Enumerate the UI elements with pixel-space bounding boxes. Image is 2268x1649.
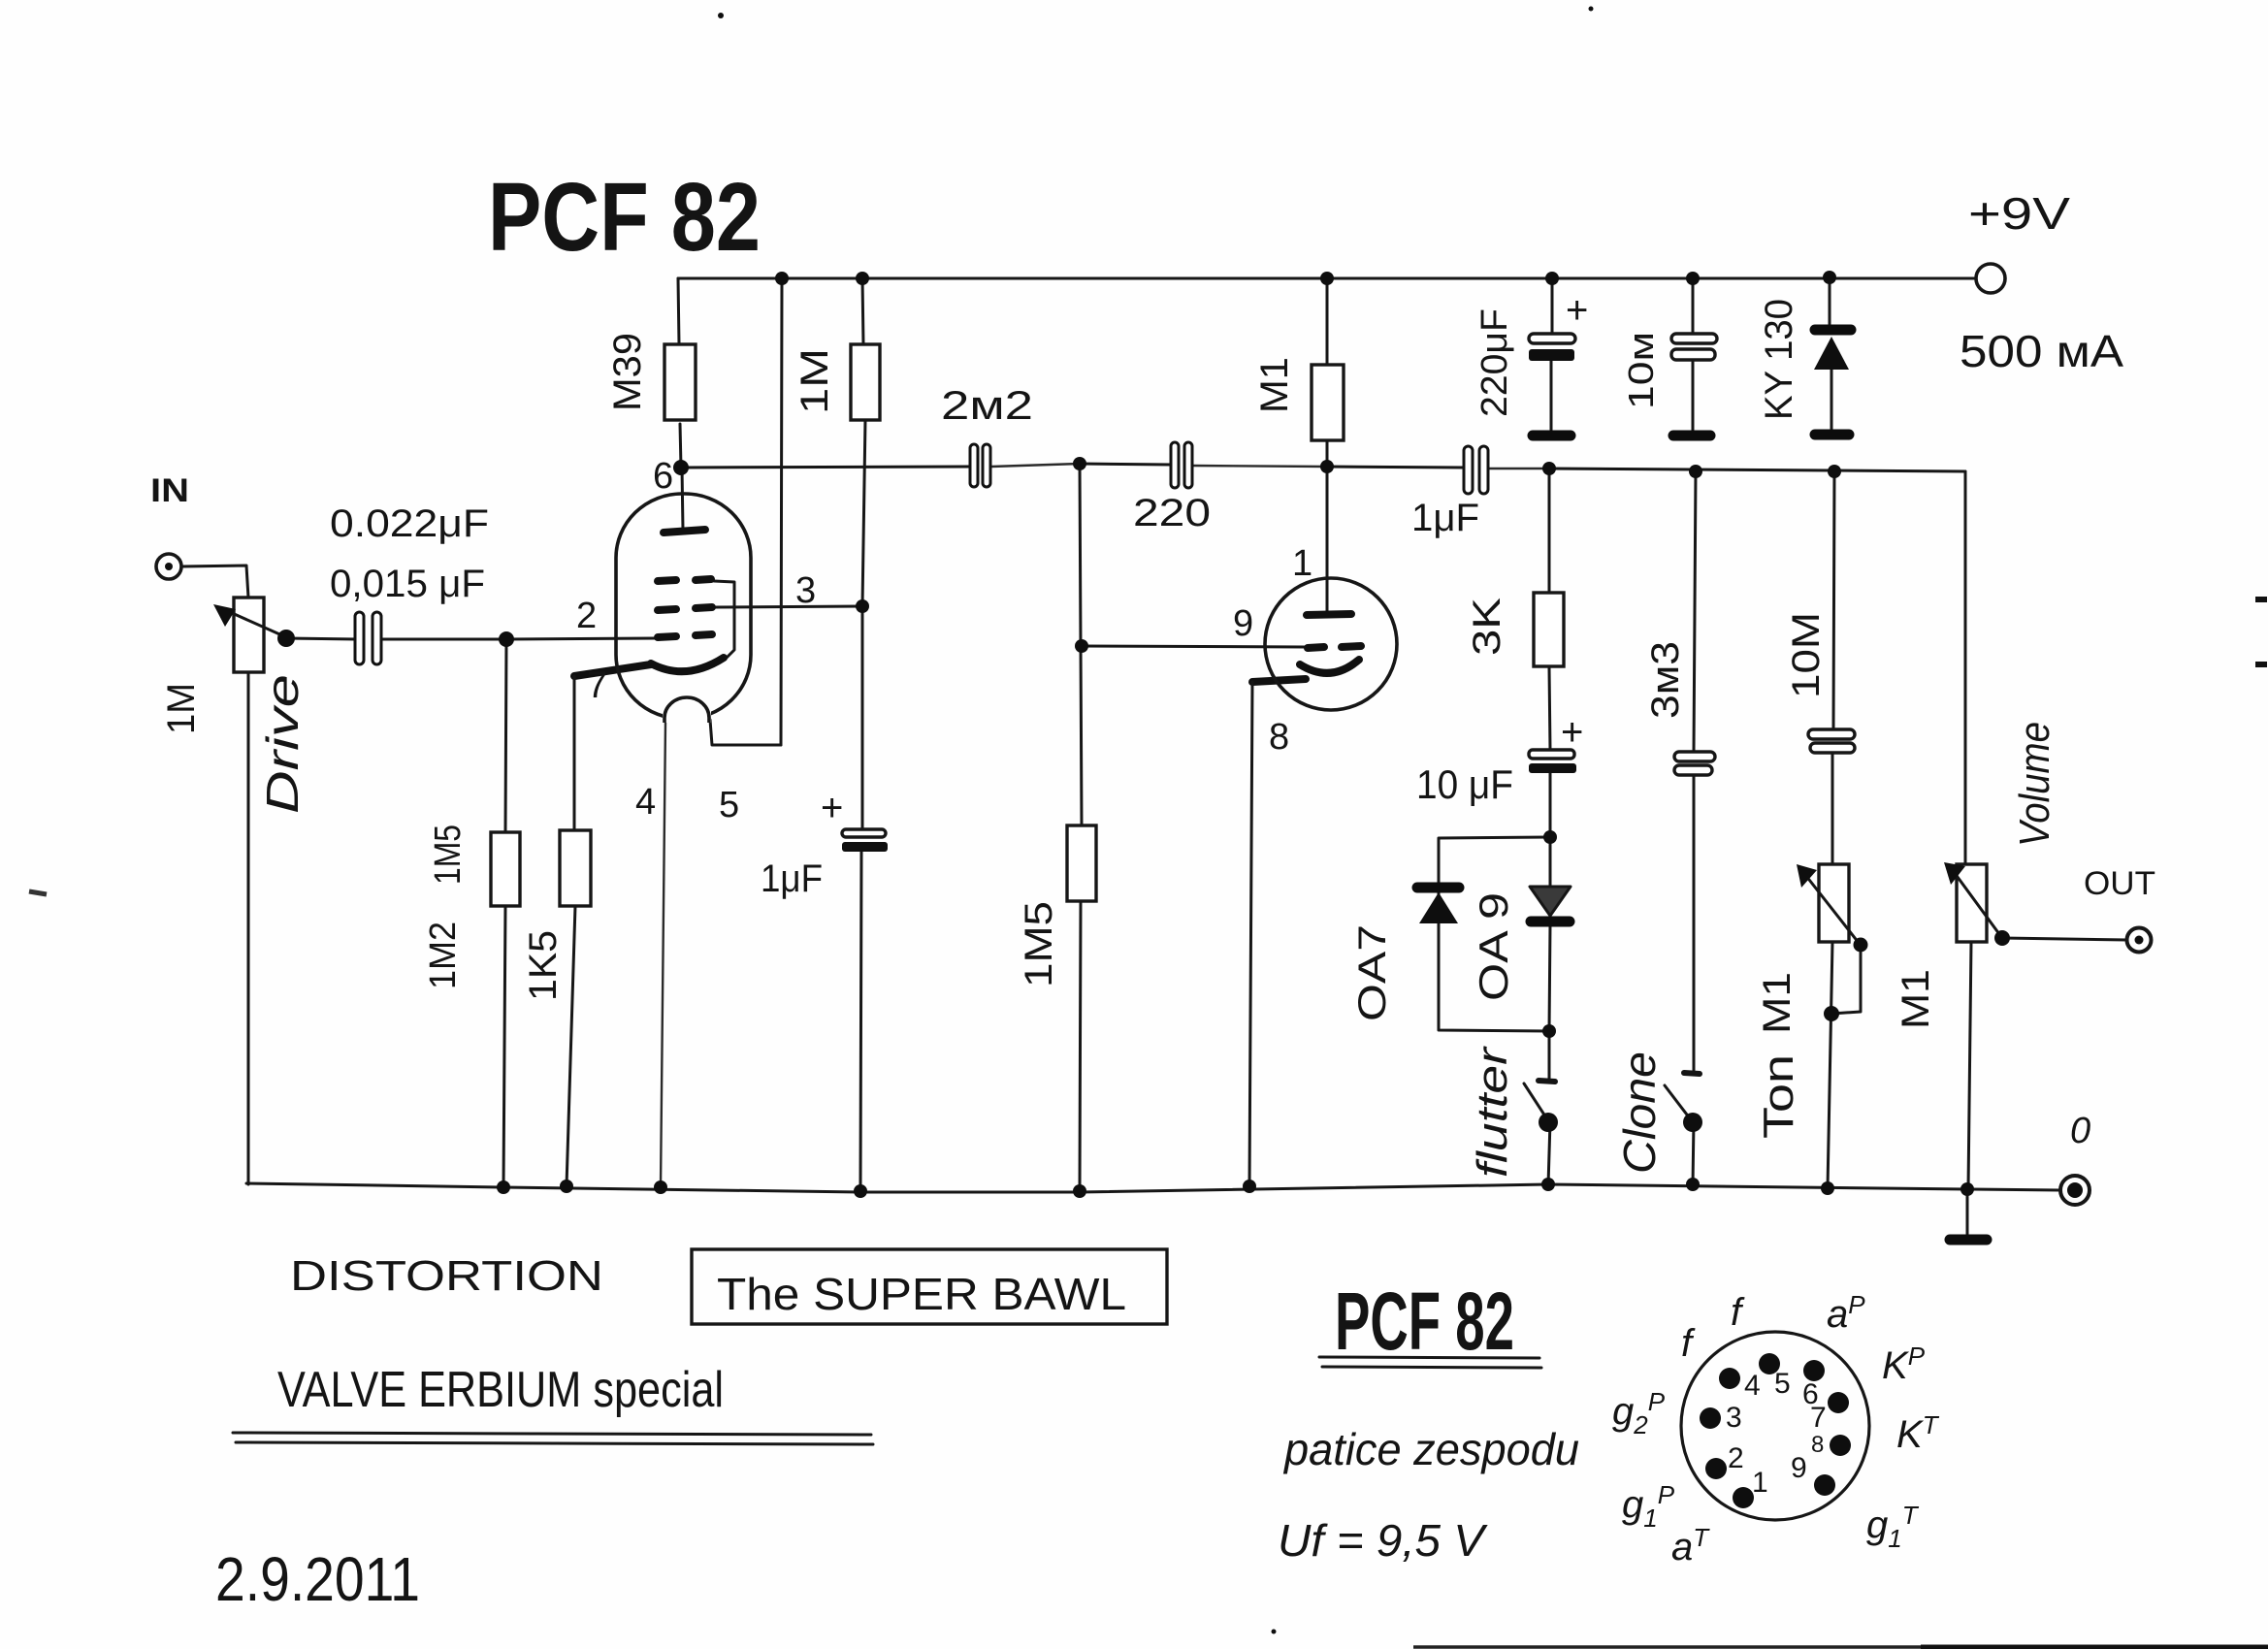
svg-text:IN: IN [150,472,189,509]
svg-text:3м3: 3м3 [1644,641,1687,719]
svg-text:1: 1 [1752,1467,1768,1499]
svg-text:M39: M39 [606,333,649,411]
svg-text:4: 4 [1744,1370,1761,1402]
svg-text:1μF: 1μF [1411,497,1479,539]
svg-text:+: + [821,787,843,829]
svg-text:patice zespodu: patice zespodu [1282,1424,1579,1474]
svg-text:1μF: 1μF [761,857,823,900]
svg-text:9: 9 [1233,603,1253,644]
svg-text:7: 7 [587,665,607,706]
svg-text:8: 8 [1811,1432,1824,1458]
svg-text:220μF: 220μF [1474,308,1515,417]
svg-text:1K5: 1K5 [522,930,565,1001]
svg-text:Volume: Volume [2011,722,2058,847]
svg-text:1M: 1M [794,348,836,414]
svg-text:9: 9 [1791,1452,1807,1484]
svg-text:5: 5 [1774,1368,1791,1400]
svg-text:VALVE ERBIUM special: VALVE ERBIUM special [277,1362,724,1418]
svg-text:M1: M1 [1253,357,1296,413]
svg-text:1: 1 [1292,543,1312,584]
svg-text:1M2: 1M2 [423,921,464,989]
svg-text:6: 6 [653,456,673,497]
svg-text:0.022μF: 0.022μF [330,502,489,545]
svg-text:3K: 3K [1466,598,1508,656]
svg-text:8: 8 [1269,717,1289,758]
svg-text:PCF 82: PCF 82 [1335,1276,1514,1367]
svg-text:OUT: OUT [2084,865,2155,902]
svg-text:2: 2 [576,596,597,636]
svg-text:M1: M1 [1895,969,1937,1029]
svg-text:10м: 10м [1621,332,1661,409]
svg-text:Clone: Clone [1614,1051,1665,1174]
svg-text:3: 3 [1726,1402,1742,1434]
svg-text:4: 4 [635,782,656,823]
svg-text:1M5: 1M5 [1018,901,1060,987]
svg-text:10 μF: 10 μF [1416,761,1513,807]
svg-text:+: + [1566,289,1588,332]
svg-text:Uf = 9,5 V: Uf = 9,5 V [1278,1515,1488,1566]
svg-text:1M5: 1M5 [428,824,469,885]
svg-text:0: 0 [2070,1111,2090,1151]
svg-text:5: 5 [719,785,739,825]
svg-text:2м2: 2м2 [941,382,1033,428]
svg-text:flutter: flutter [1469,1045,1516,1178]
svg-text:2: 2 [1728,1442,1744,1474]
svg-text:OA 9: OA 9 [1471,892,1516,1001]
svg-text:220: 220 [1133,492,1211,534]
svg-text:M1: M1 [1756,972,1798,1034]
svg-text:KY 130: KY 130 [1758,299,1800,420]
svg-text:3: 3 [795,570,816,611]
svg-text:1M: 1M [160,683,203,734]
svg-text:OA7: OA7 [1351,924,1394,1021]
svg-text:500 мA: 500 мA [1960,326,2123,376]
svg-text:DISTORTION: DISTORTION [290,1252,603,1300]
svg-text:+9V: +9V [1968,188,2070,239]
svg-text:The SUPER BAWL: The SUPER BAWL [717,1269,1126,1319]
svg-text:10M: 10M [1785,612,1828,698]
svg-text:7: 7 [1810,1402,1827,1434]
svg-text:Ton: Ton [1755,1054,1802,1139]
svg-text:2.9.2011: 2.9.2011 [215,1544,420,1614]
svg-text:Drive: Drive [257,674,308,814]
svg-text:0,015 μF: 0,015 μF [330,563,485,605]
svg-text:PCF 82: PCF 82 [488,163,761,272]
svg-text:+: + [1561,711,1583,754]
